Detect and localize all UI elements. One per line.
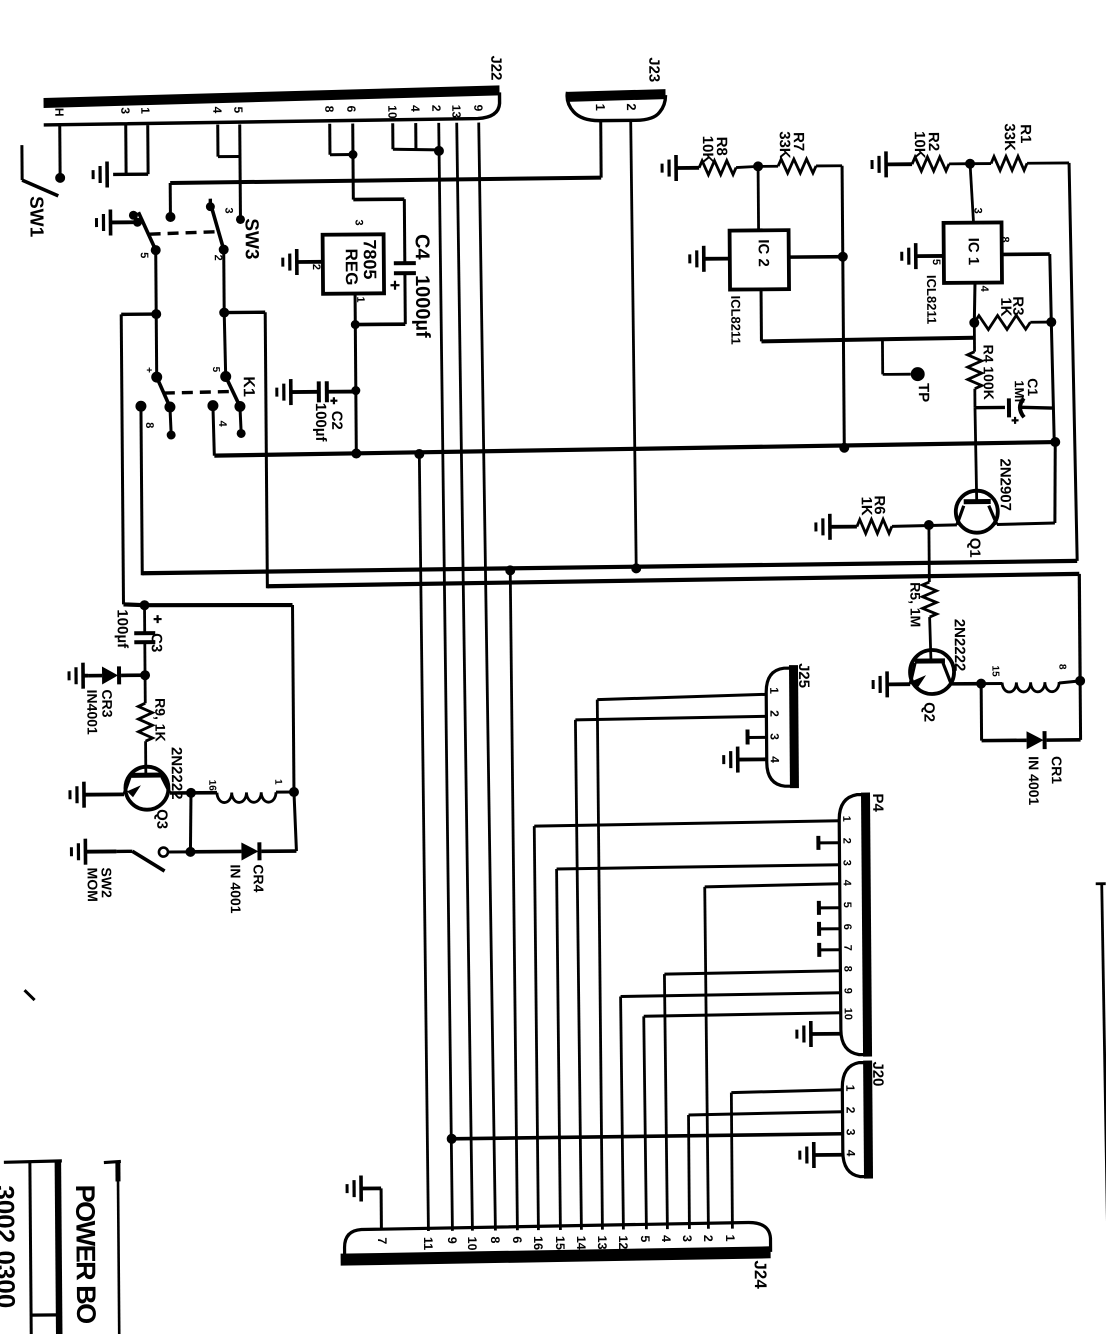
svg-text:J23: J23 bbox=[645, 57, 662, 82]
svg-text:15: 15 bbox=[989, 665, 1000, 677]
capacitor C1 bbox=[975, 406, 1005, 410]
svg-text:1K: 1K bbox=[858, 496, 875, 515]
svg-text:IC 2: IC 2 bbox=[755, 239, 772, 267]
diode CR4 IN4001 bbox=[190, 850, 241, 854]
svg-text:9: 9 bbox=[842, 988, 854, 994]
wire IC2 bottom to TP rail bbox=[760, 289, 763, 341]
test point TP bbox=[881, 339, 884, 374]
svg-text:8: 8 bbox=[322, 106, 336, 113]
svg-text:1: 1 bbox=[840, 816, 852, 822]
svg-text:R9, 1K: R9, 1K bbox=[152, 698, 168, 742]
svg-text:C3: C3 bbox=[148, 633, 165, 652]
svg-text:1: 1 bbox=[593, 104, 608, 111]
wire R7 to bus bbox=[842, 166, 844, 451]
ground REG pin2 bbox=[295, 249, 299, 275]
relay K1 left pole bbox=[151, 309, 161, 319]
svg-text:P4: P4 bbox=[869, 793, 886, 812]
svg-text:TP: TP bbox=[915, 383, 932, 402]
wire P4 pin4 bbox=[705, 884, 840, 887]
svg-text:CR1: CR1 bbox=[1049, 756, 1065, 784]
svg-text:1K: 1K bbox=[997, 297, 1014, 316]
svg-text:R1: R1 bbox=[1017, 124, 1034, 143]
ground IC2 bbox=[702, 246, 706, 272]
wire REG input node to C4 bbox=[353, 197, 404, 201]
transistor Q2 2N2222 bbox=[910, 650, 954, 694]
connector J24 bbox=[344, 1222, 770, 1257]
wire TP rail bbox=[761, 338, 973, 342]
ground J24 pin7 bbox=[359, 1176, 363, 1202]
P4 pin2 NC stub bbox=[819, 841, 839, 844]
svg-text:1: 1 bbox=[723, 1235, 737, 1242]
ground SW2 bbox=[84, 839, 88, 865]
wire P4 pin8 bbox=[664, 971, 840, 974]
J25 pin3 NC stub bbox=[749, 736, 767, 739]
resistor R6 1K bbox=[857, 519, 892, 533]
svg-text:2: 2 bbox=[624, 103, 639, 110]
wire Q2 collector bbox=[951, 682, 981, 686]
svg-text:MOM: MOM bbox=[85, 868, 101, 902]
svg-text:4: 4 bbox=[210, 107, 224, 114]
svg-text:3: 3 bbox=[844, 1129, 858, 1136]
svg-text:7: 7 bbox=[841, 945, 853, 951]
wire main V+ bus bbox=[214, 442, 1055, 456]
wire bus to J24 pin 6 bbox=[510, 570, 517, 1230]
svg-text:C2: C2 bbox=[328, 411, 345, 430]
relay K1 right pole bbox=[219, 308, 229, 318]
wire P4 pin3 bbox=[557, 865, 840, 869]
P4 pin6 NC stub bbox=[820, 927, 840, 930]
svg-text:2: 2 bbox=[701, 1235, 715, 1242]
svg-text:3002 0300: 3002 0300 bbox=[0, 1185, 21, 1308]
svg-text:REG: REG bbox=[342, 248, 361, 285]
wire coil return vertical bbox=[293, 605, 294, 792]
wire J22 pins 10,4 join pin 2 bbox=[391, 123, 394, 149]
transistor Q1 2N2907 bbox=[956, 491, 998, 533]
relay coil of K1 (Q2) bbox=[981, 682, 1002, 685]
wire K1 frame to C3 node bbox=[123, 604, 144, 605]
svg-text:IN 4001: IN 4001 bbox=[228, 864, 244, 913]
SW3 dashed link bbox=[150, 232, 219, 235]
svg-text:10K: 10K bbox=[911, 131, 928, 159]
svg-text:8: 8 bbox=[841, 966, 853, 972]
svg-text:C4: C4 bbox=[411, 234, 433, 261]
svg-text:16: 16 bbox=[531, 1236, 545, 1250]
resistor R5 1M bbox=[927, 525, 930, 582]
svg-text:Q2: Q2 bbox=[920, 702, 937, 722]
ground P4 bbox=[809, 1021, 813, 1047]
wire J20 pin2 bbox=[689, 1112, 843, 1115]
svg-text:J20: J20 bbox=[869, 1061, 886, 1086]
svg-text:2: 2 bbox=[212, 255, 224, 261]
svg-text:4: 4 bbox=[844, 1150, 858, 1157]
transistor Q3 2N2222 bbox=[144, 741, 147, 775]
diode CR3 IN4001 bbox=[88, 674, 102, 678]
svg-text:CR4: CR4 bbox=[251, 864, 267, 892]
svg-text:16: 16 bbox=[206, 780, 217, 792]
wire IC2 output bbox=[789, 255, 843, 259]
svg-text:10: 10 bbox=[842, 1008, 854, 1020]
wire bus V+ to J24 pin 11 bbox=[419, 454, 428, 1231]
capacitor C4 1000uf bbox=[394, 261, 416, 265]
wire CR4 to coil return bbox=[294, 792, 296, 851]
ground J20 pin4 bbox=[812, 1142, 816, 1168]
wire IC1 pin4 bbox=[974, 283, 975, 323]
svg-text:33K: 33K bbox=[1001, 123, 1018, 151]
svg-text:2: 2 bbox=[429, 105, 443, 112]
ground Q2 emitter bbox=[885, 671, 889, 697]
wire REG output down bbox=[355, 294, 356, 455]
wire P4 pin9 bbox=[621, 993, 841, 997]
svg-text:2N2222: 2N2222 bbox=[951, 619, 968, 672]
svg-text:3: 3 bbox=[680, 1235, 694, 1242]
K1 dashed link bbox=[164, 391, 234, 393]
svg-text:1: 1 bbox=[272, 779, 283, 785]
switch SW2 bbox=[116, 850, 132, 854]
svg-text:5: 5 bbox=[138, 252, 150, 258]
svg-text:6: 6 bbox=[841, 924, 853, 930]
svg-text:10K: 10K bbox=[699, 136, 716, 164]
wire J22 pin H to SW1 bbox=[58, 126, 61, 178]
svg-text:J22: J22 bbox=[487, 55, 504, 80]
svg-text:100µf: 100µf bbox=[114, 609, 131, 649]
svg-text:2: 2 bbox=[310, 264, 322, 270]
svg-text:SW1: SW1 bbox=[25, 196, 46, 238]
svg-text:5: 5 bbox=[930, 259, 942, 265]
svg-text:12: 12 bbox=[616, 1235, 630, 1249]
svg-text:3: 3 bbox=[353, 219, 365, 225]
svg-text:4: 4 bbox=[768, 756, 782, 763]
resistor R8 10K bbox=[699, 161, 736, 175]
wire J20 pin3 bbox=[452, 1134, 843, 1139]
wire J22 pin 4 bbox=[216, 125, 219, 157]
svg-text:4: 4 bbox=[659, 1235, 673, 1242]
stray mark bbox=[25, 990, 35, 1000]
svg-text:3: 3 bbox=[768, 733, 782, 740]
wire R3-C1 right leg to bus bbox=[1051, 322, 1054, 442]
svg-text:Q1: Q1 bbox=[966, 538, 983, 558]
svg-text:6: 6 bbox=[344, 106, 358, 113]
ground IC1 bbox=[914, 243, 918, 269]
ground R2 bbox=[884, 151, 888, 177]
ground CR3 bbox=[81, 663, 85, 689]
svg-text:15: 15 bbox=[553, 1236, 567, 1250]
svg-text:9: 9 bbox=[445, 1237, 459, 1244]
svg-text:5: 5 bbox=[210, 367, 221, 373]
wire P4 pin10 bbox=[644, 1013, 841, 1017]
title block frame bbox=[4, 1161, 62, 1162]
svg-text:11: 11 bbox=[421, 1237, 435, 1250]
wire NC bus A bbox=[142, 561, 1077, 573]
svg-text:ICL8211: ICL8211 bbox=[728, 295, 743, 344]
wire R4 node to Q1 base bbox=[975, 408, 977, 501]
svg-text:IC 1: IC 1 bbox=[965, 238, 982, 266]
svg-text:4: 4 bbox=[216, 421, 228, 428]
svg-text:R4 100K: R4 100K bbox=[980, 345, 996, 400]
wire J22 pin 5 to SW3 bbox=[238, 124, 242, 219]
svg-text:ICL8211: ICL8211 bbox=[924, 275, 939, 324]
P4 pin7 NC stub bbox=[820, 948, 840, 951]
svg-text:4: 4 bbox=[841, 880, 853, 887]
wire NC bus B bbox=[267, 574, 1079, 586]
P4 pin5 NC stub bbox=[820, 906, 840, 909]
svg-text:5: 5 bbox=[638, 1235, 652, 1242]
svg-text:IN 4001: IN 4001 bbox=[1026, 756, 1042, 805]
wire bus J22 pin13 to J24 pin 10 bbox=[457, 123, 473, 1231]
svg-text:K1: K1 bbox=[240, 376, 257, 397]
wire Q3 collector bbox=[170, 791, 217, 795]
wire J23 pin2 to NC bus bbox=[631, 121, 637, 567]
svg-text:8: 8 bbox=[1056, 664, 1067, 670]
svg-text:5: 5 bbox=[841, 902, 853, 908]
svg-text:4: 4 bbox=[978, 286, 990, 293]
svg-text:9: 9 bbox=[471, 105, 485, 112]
svg-text:10: 10 bbox=[385, 105, 399, 119]
svg-text:Q3: Q3 bbox=[153, 809, 170, 829]
wire R1 to NC bus A bbox=[1069, 163, 1077, 561]
resistor R1 33K bbox=[970, 162, 991, 165]
svg-text:8: 8 bbox=[999, 236, 1011, 242]
svg-text:3: 3 bbox=[118, 107, 132, 114]
svg-text:2N2907: 2N2907 bbox=[996, 458, 1013, 511]
svg-text:13: 13 bbox=[449, 105, 463, 119]
voltage regulator REG 7805 bbox=[323, 234, 384, 293]
svg-text:R5, 1M: R5, 1M bbox=[907, 582, 923, 627]
svg-text:1: 1 bbox=[767, 687, 781, 694]
svg-text:+: + bbox=[143, 367, 154, 373]
wire P4 pin1 bbox=[534, 821, 839, 826]
svg-text:1: 1 bbox=[843, 1085, 857, 1092]
relay coil of K1 (Q3) bbox=[217, 792, 276, 802]
svg-text:10: 10 bbox=[465, 1237, 479, 1251]
ground R6 bbox=[828, 514, 832, 540]
svg-text:1Mf: 1Mf bbox=[1012, 380, 1027, 403]
svg-text:IN4001: IN4001 bbox=[84, 690, 100, 735]
wire J23 pin1 to SW3 bbox=[170, 178, 601, 183]
connector J23 bbox=[567, 89, 665, 102]
IC U1 ICL8211 bbox=[970, 164, 973, 223]
switch SW3 left pole bbox=[109, 209, 113, 235]
capacitor C2 100uf bbox=[289, 379, 293, 405]
svg-text:13: 13 bbox=[595, 1236, 609, 1250]
wire K1 to main bus bbox=[213, 406, 214, 456]
wire K1 common down bbox=[265, 312, 267, 588]
svg-text:4: 4 bbox=[408, 105, 422, 112]
switch SW3 right pole bbox=[209, 199, 212, 208]
svg-text:CR3: CR3 bbox=[99, 689, 115, 717]
svg-text:2: 2 bbox=[767, 710, 781, 717]
wire J23 pin1 down bbox=[599, 122, 602, 178]
connector J20 bbox=[842, 1063, 866, 1177]
wire J22 pins 3,1 to ground bbox=[124, 125, 127, 174]
ground J22 pins 3-1 bbox=[105, 161, 109, 187]
resistor R9 1K bbox=[144, 675, 147, 703]
svg-text:3: 3 bbox=[971, 208, 983, 214]
svg-text:J25: J25 bbox=[795, 663, 812, 688]
connector J22 bbox=[43, 85, 499, 108]
ground Q3 emitter bbox=[82, 782, 86, 808]
resistor R3 1K bbox=[974, 315, 1030, 329]
IC U2 ICL8211 bbox=[757, 166, 760, 230]
wire SW2 to CR4 bbox=[168, 850, 190, 853]
potentiometer R4 100K bbox=[973, 323, 976, 352]
svg-text:33K: 33K bbox=[776, 131, 793, 159]
svg-text:3: 3 bbox=[841, 860, 853, 866]
svg-text:6: 6 bbox=[510, 1236, 524, 1243]
svg-text:14: 14 bbox=[574, 1236, 588, 1250]
wire J25 pin1 bbox=[597, 694, 766, 699]
wire bus J22 pin2 to J24 pin 9 bbox=[439, 123, 453, 1231]
svg-text:7: 7 bbox=[375, 1237, 389, 1244]
svg-text:2: 2 bbox=[843, 1107, 857, 1114]
wire J22 pins 8,6 junction bbox=[328, 124, 331, 155]
svg-text:7805: 7805 bbox=[360, 239, 380, 279]
ground J25 pin4 bbox=[736, 747, 740, 773]
svg-text:100µf: 100µf bbox=[312, 403, 329, 443]
capacitor C3 100uf bbox=[143, 605, 146, 633]
connector P4 bbox=[839, 795, 865, 1055]
svg-text:SW3: SW3 bbox=[240, 218, 261, 259]
wire bus J22 pin9 to J24 pin 8 bbox=[479, 123, 496, 1231]
sheet border right bbox=[1102, 883, 1106, 1330]
wire J20 pin1 bbox=[731, 1090, 842, 1093]
wire K1 to NC bus a bbox=[141, 406, 142, 575]
connector J25 bbox=[766, 668, 793, 786]
svg-text:8: 8 bbox=[488, 1236, 502, 1243]
svg-text:1: 1 bbox=[138, 107, 152, 114]
svg-text:2: 2 bbox=[840, 838, 852, 844]
resistor R7 33K bbox=[758, 165, 778, 168]
wire J25 pin2 bbox=[575, 716, 766, 720]
wire IC1 pin8 bbox=[1002, 252, 1050, 256]
resistor R2 10K bbox=[912, 157, 949, 171]
svg-text:1000µf: 1000µf bbox=[411, 275, 433, 338]
svg-text:H: H bbox=[52, 108, 66, 117]
diode CR1 IN4001 bbox=[980, 684, 983, 741]
wire Q1 collector to bus bbox=[997, 523, 1055, 524]
svg-text:POWER BO: POWER BO bbox=[70, 1185, 101, 1324]
ground R8 bbox=[674, 155, 678, 181]
svg-text:J24: J24 bbox=[751, 1260, 770, 1289]
wire NC bus B to relay coil node bbox=[1078, 574, 1082, 680]
switch SW1 bbox=[20, 145, 23, 180]
svg-text:3: 3 bbox=[222, 207, 234, 213]
svg-text:5: 5 bbox=[231, 106, 245, 113]
svg-text:8: 8 bbox=[143, 422, 155, 428]
